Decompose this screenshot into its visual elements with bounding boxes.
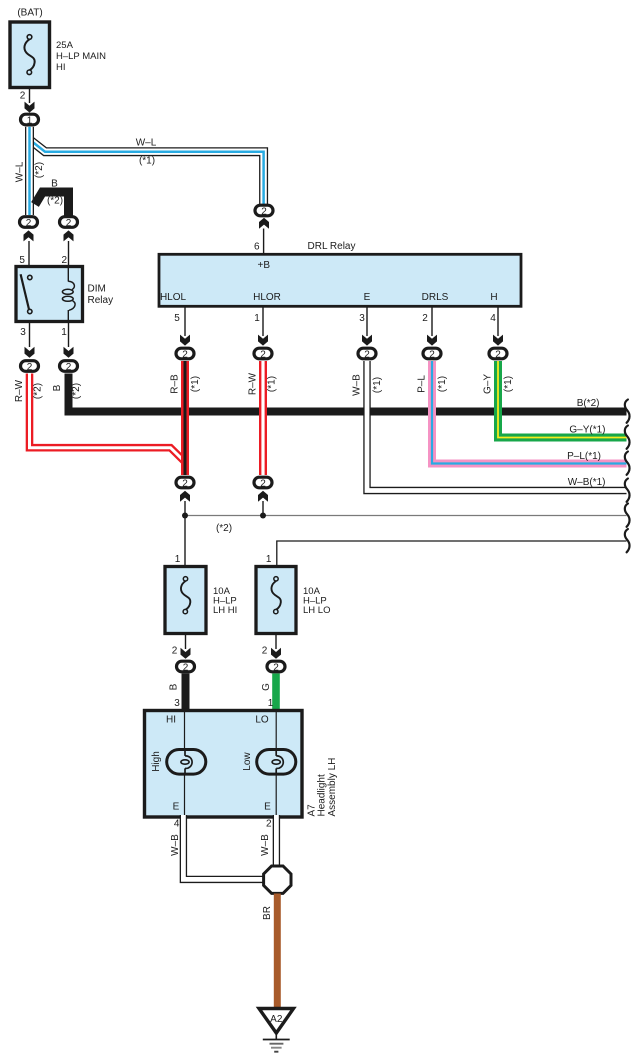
svg-text:2: 2 [261, 207, 267, 218]
svg-text:H–LP MAIN: H–LP MAIN [56, 51, 106, 62]
svg-text:(*1): (*1) [372, 377, 383, 393]
break squiggle W-B [625, 479, 630, 502]
svg-text:(*2): (*2) [216, 523, 232, 534]
svg-text:E: E [364, 292, 371, 303]
junction dot right [260, 513, 266, 519]
svg-text:(*2): (*2) [34, 162, 45, 178]
svg-text:2: 2 [273, 663, 279, 674]
break squiggle fuse line [625, 529, 630, 552]
svg-text:(*1): (*1) [503, 376, 514, 392]
svg-text:B: B [169, 683, 180, 690]
wire E stub [366, 307, 368, 337]
wire B thick from W-L split [35, 192, 69, 216]
wire W-B from E [367, 361, 627, 491]
wire BR to ground [274, 894, 281, 1008]
svg-text:Relay: Relay [88, 295, 114, 306]
svg-text:4: 4 [174, 819, 180, 830]
svg-text:2: 2 [182, 479, 188, 490]
wire DIM pin1 to connector [68, 322, 70, 348]
svg-text:R–B: R–B [170, 374, 181, 394]
svg-text:B: B [52, 384, 63, 391]
wire R-W from HLOR [259, 361, 267, 475]
connector 2 below right fuse [267, 661, 285, 673]
wire DRLS stub [431, 307, 433, 337]
svg-text:B(*2): B(*2) [577, 398, 600, 409]
connector 2 below left fuse [177, 661, 195, 673]
svg-text:Headlight: Headlight [317, 774, 328, 816]
svg-text:2: 2 [260, 350, 266, 361]
connector 2 HLOL [176, 348, 194, 360]
svg-text:H: H [490, 292, 497, 303]
DIM relay box [16, 267, 83, 322]
svg-text:1: 1 [27, 116, 33, 127]
break squiggle (*2) line [625, 504, 630, 527]
wire W-B right to splice [273, 815, 280, 868]
wire DIM pin3 to connector [29, 322, 31, 348]
svg-text:W–B: W–B [170, 834, 181, 856]
svg-text:W–B: W–B [352, 374, 363, 396]
svg-text:LO: LO [255, 715, 269, 726]
svg-text:W–B: W–B [260, 834, 271, 856]
break squiggle P-L [625, 452, 630, 475]
svg-text:2: 2 [62, 255, 68, 266]
svg-text:+B: +B [258, 260, 271, 271]
svg-text:2: 2 [27, 362, 33, 373]
wire R-W from DIM pin3 [30, 374, 185, 462]
svg-text:2: 2 [266, 819, 272, 830]
svg-text:R–W: R–W [248, 372, 259, 395]
wire G-Y from H [498, 361, 627, 438]
fuse 10A H-LP LH LO [256, 567, 296, 634]
svg-text:(BAT): (BAT) [17, 8, 42, 19]
svg-text:(*2): (*2) [33, 383, 44, 399]
svg-text:G–Y(*1): G–Y(*1) [569, 424, 605, 435]
svg-text:6: 6 [254, 242, 260, 253]
wire P-L from DRLS [432, 361, 627, 464]
svg-text:W–L: W–L [15, 161, 26, 182]
svg-text:G: G [261, 683, 272, 691]
svg-text:2: 2 [182, 350, 188, 361]
svg-text:B: B [51, 179, 58, 190]
svg-text:DRL Relay: DRL Relay [308, 241, 356, 252]
connector 2 below R-W [254, 477, 272, 502]
svg-text:25A: 25A [56, 40, 74, 51]
svg-text:LH LO: LH LO [303, 605, 330, 616]
svg-text:1: 1 [254, 313, 260, 324]
wire W-L branch to DRL relay +B [30, 140, 264, 205]
connector 2 HLOR [254, 348, 272, 360]
wire B to headlight HI [182, 674, 190, 712]
svg-text:R–W: R–W [14, 379, 25, 402]
svg-text:5: 5 [19, 255, 25, 266]
svg-text:2: 2 [20, 91, 26, 102]
wire right fuse to connector [275, 634, 277, 650]
svg-text:DIM: DIM [88, 284, 106, 295]
wire left fuse to connector [185, 634, 187, 650]
connector 2 E [358, 348, 376, 360]
svg-text:HLOL: HLOL [160, 292, 187, 303]
svg-text:P–L(*1): P–L(*1) [567, 451, 601, 462]
svg-text:2: 2 [495, 350, 501, 361]
label A7 Headlight Assembly LH [307, 758, 339, 817]
svg-text:(*1): (*1) [139, 156, 155, 167]
wire R-B from HLOL [181, 361, 189, 475]
svg-text:(*1): (*1) [437, 376, 448, 392]
svg-text:1: 1 [268, 698, 274, 709]
connector 2 left above DIM [20, 217, 38, 267]
svg-text:2: 2 [364, 350, 370, 361]
svg-text:E: E [264, 802, 271, 813]
svg-text:2: 2 [183, 663, 189, 674]
break squiggle G-Y [625, 426, 630, 449]
connector 2 below R-B [176, 477, 194, 502]
svg-text:P–L: P–L [417, 375, 428, 393]
svg-text:2: 2 [260, 479, 266, 490]
svg-text:(*2): (*2) [71, 383, 82, 399]
svg-text:2: 2 [429, 350, 435, 361]
connector 2 H [489, 348, 507, 360]
svg-text:W–L: W–L [136, 138, 157, 149]
svg-text:(*2): (*2) [47, 196, 63, 207]
wire feed to LH LO fuse [277, 541, 627, 567]
svg-text:3: 3 [20, 327, 26, 338]
svg-text:2: 2 [26, 218, 32, 229]
ground symbol [263, 1033, 290, 1052]
connector 2 DRLS [423, 348, 441, 360]
ground triangle A2 [259, 1009, 294, 1034]
fuse 25A H-LP MAIN HI [10, 22, 50, 88]
svg-text:3: 3 [174, 698, 180, 709]
junction line (*2) [185, 515, 627, 517]
svg-text:W–B(*1): W–B(*1) [568, 477, 606, 488]
svg-text:1: 1 [61, 327, 67, 338]
svg-text:2: 2 [262, 646, 268, 657]
svg-text:1: 1 [266, 554, 272, 565]
svg-text:A2: A2 [270, 1014, 283, 1025]
svg-text:HI: HI [56, 62, 66, 73]
break squiggle B [625, 400, 630, 423]
splice octagon [264, 866, 291, 893]
connector 2 below DIM pin3 [21, 361, 39, 373]
svg-text:High: High [151, 751, 162, 772]
svg-text:HI: HI [166, 715, 176, 726]
svg-text:2: 2 [66, 362, 72, 373]
wire B bus from DIM pin1 [69, 374, 627, 412]
wire G to headlight LO [272, 674, 280, 712]
svg-text:LH HI: LH HI [213, 605, 237, 616]
svg-text:2: 2 [172, 646, 178, 657]
junction dot left [182, 513, 188, 519]
connector 2 right above DIM [60, 217, 78, 267]
svg-text:E: E [173, 802, 180, 813]
connector circle 1 [21, 114, 39, 126]
svg-text:Low: Low [242, 752, 253, 771]
bulb High [167, 750, 206, 775]
wire H stub [497, 307, 499, 337]
svg-text:DRLS: DRLS [422, 292, 449, 303]
svg-text:G–Y: G–Y [483, 374, 494, 394]
connector 2 below DIM pin1 [60, 361, 78, 373]
svg-text:1: 1 [175, 554, 181, 565]
wire fuse to connector [29, 88, 31, 104]
svg-text:HLOR: HLOR [253, 292, 281, 303]
svg-text:4: 4 [490, 313, 496, 324]
fuse 10A H-LP LH HI [165, 567, 206, 634]
svg-text:3: 3 [359, 313, 365, 324]
connector 2 at +B [255, 205, 273, 255]
wire HLOL stub [184, 307, 186, 337]
bulb Low [257, 750, 296, 775]
wire W-B left to splice [183, 815, 266, 879]
svg-text:BR: BR [262, 906, 273, 920]
svg-text:2: 2 [66, 218, 72, 229]
wire connector to junction left [184, 501, 186, 567]
DRL relay box [159, 254, 521, 306]
wire HLOR stub [262, 307, 264, 337]
svg-text:(*1): (*1) [190, 376, 201, 392]
svg-text:5: 5 [174, 313, 180, 324]
wire connector to junction right [262, 501, 264, 516]
svg-text:2: 2 [422, 313, 428, 324]
svg-text:Assembly LH: Assembly LH [327, 758, 338, 817]
svg-text:A7: A7 [307, 804, 318, 817]
svg-text:(*1): (*1) [267, 376, 278, 392]
wire W-L vertical [25, 127, 34, 215]
headlight assembly box [145, 711, 303, 818]
